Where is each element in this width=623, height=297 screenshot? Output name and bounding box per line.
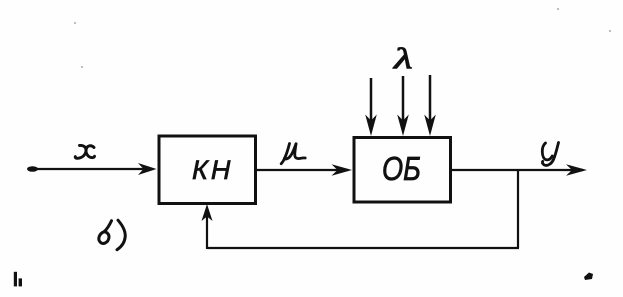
svg-text:ОБ: ОБ	[382, 152, 421, 188]
label mu (cursive)	[281, 144, 305, 164]
label y (cursive)	[542, 143, 558, 166]
wire output y	[450, 164, 587, 175]
svg-text:КН: КН	[192, 155, 233, 185]
wire feedback up into KN	[202, 204, 213, 249]
wire input x	[27, 163, 157, 175]
stray speck bottom right	[584, 273, 593, 281]
block OB (rectangle ОБ)	[354, 138, 451, 203]
label x (cursive script x)	[75, 145, 94, 158]
wire lambda arrow 3	[424, 75, 436, 136]
stray mark bottom left	[14, 272, 22, 287]
block KN (rectangle КН)	[159, 136, 256, 204]
wire lambda arrow 2	[397, 76, 409, 136]
node junction at output branch	[517, 170, 519, 248]
wire KN to OB	[255, 164, 352, 175]
wire lambda arrow 1	[365, 78, 377, 136]
faint scan dots	[74, 8, 611, 68]
svg-text:λ: λ	[393, 42, 413, 75]
wire feedback bottom	[207, 247, 519, 249]
label b) figure caption	[99, 220, 125, 250]
